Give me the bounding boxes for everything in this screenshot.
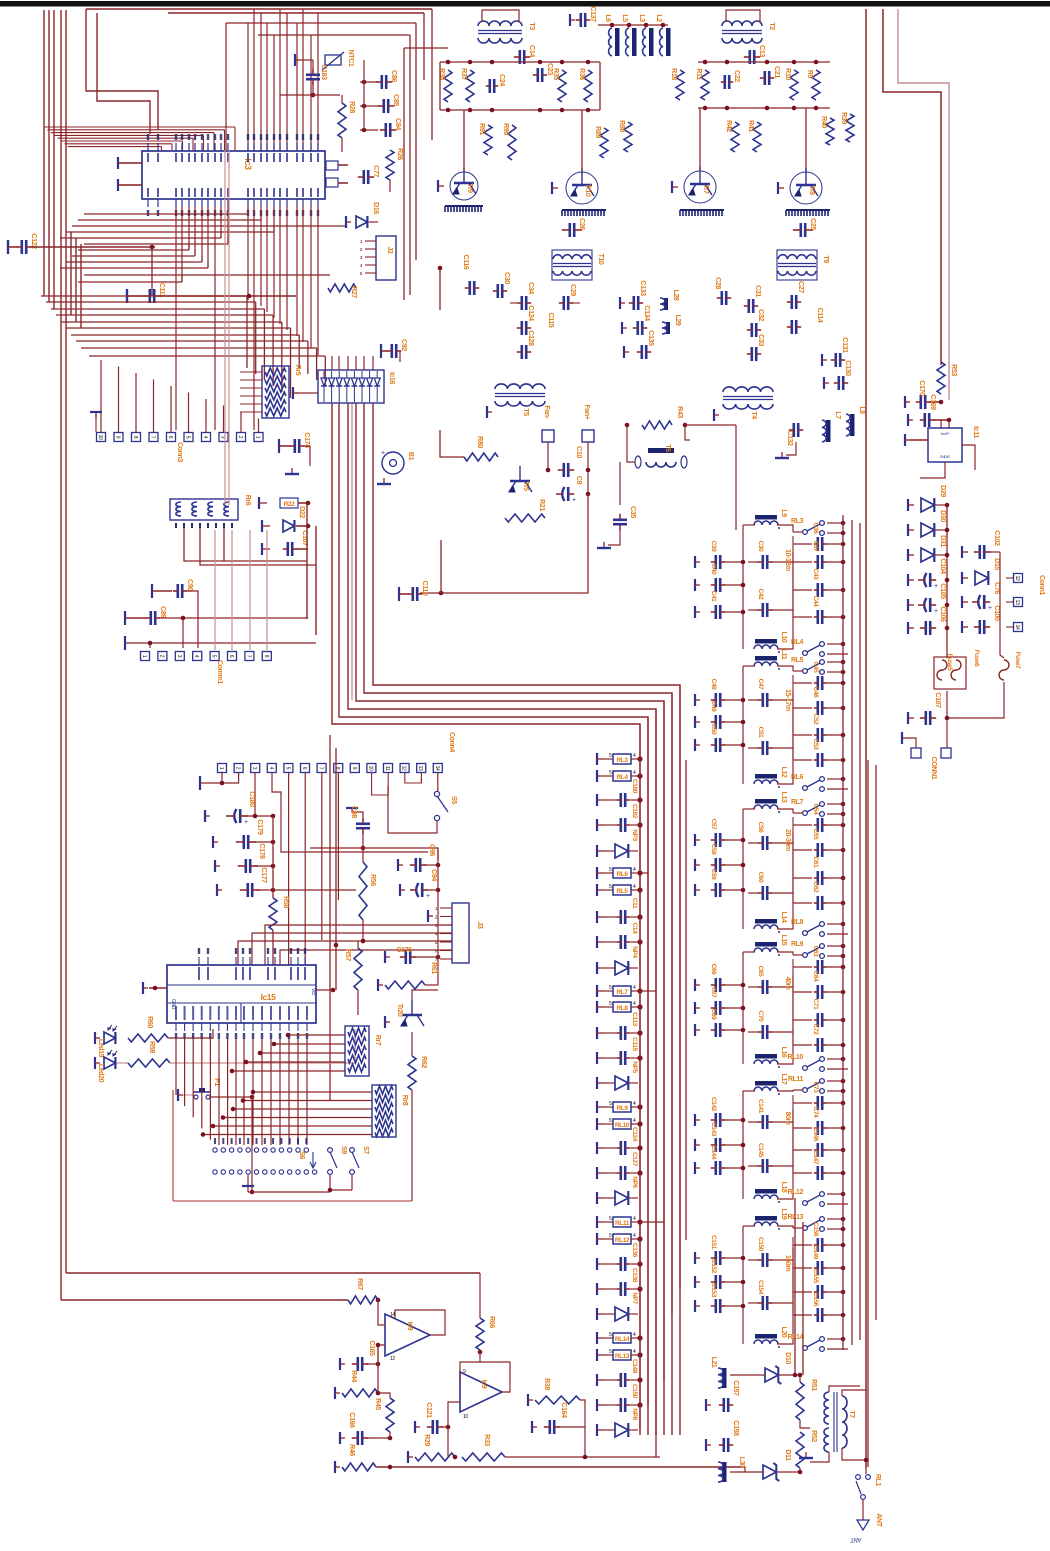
svg-text:NP5: NP5 xyxy=(631,1061,638,1073)
svg-text:RL9: RL9 xyxy=(791,941,804,948)
svg-text:C132: C132 xyxy=(786,430,793,446)
svg-text:D30: D30 xyxy=(939,510,946,522)
svg-text:15-17m: 15-17m xyxy=(784,689,791,711)
svg-text:C50: C50 xyxy=(710,724,717,736)
svg-text:Rr7: Rr7 xyxy=(374,1035,381,1046)
svg-text:C30: C30 xyxy=(503,272,510,284)
svg-text:S6: S6 xyxy=(298,1151,305,1159)
svg-text:L6: L6 xyxy=(604,14,611,22)
svg-text:ANT: ANT xyxy=(850,1536,862,1542)
svg-text:C96: C96 xyxy=(428,844,435,856)
svg-text:C124: C124 xyxy=(631,1127,638,1142)
svg-text:R33: R33 xyxy=(483,1434,490,1446)
svg-text:R62: R62 xyxy=(420,1056,427,1068)
svg-text:R10: R10 xyxy=(784,68,791,80)
svg-text:+: + xyxy=(572,497,576,504)
svg-text:RL14: RL14 xyxy=(615,1336,630,1343)
svg-text:+: + xyxy=(988,605,992,612)
svg-text:C170: C170 xyxy=(918,380,925,396)
svg-text:R39: R39 xyxy=(840,112,847,124)
svg-text:R26: R26 xyxy=(396,148,403,160)
svg-text:C45: C45 xyxy=(812,662,819,674)
svg-text:D31: D31 xyxy=(939,535,946,547)
svg-text:C29: C29 xyxy=(569,284,576,296)
svg-text:R58: R58 xyxy=(282,896,289,908)
svg-text:C158: C158 xyxy=(812,1222,819,1237)
svg-text:RL3: RL3 xyxy=(791,518,804,525)
svg-text:C34: C34 xyxy=(527,282,534,294)
svg-text:R40: R40 xyxy=(820,116,827,128)
svg-text:C11: C11 xyxy=(631,898,638,909)
svg-text:T4: T4 xyxy=(750,411,757,419)
svg-text:C14: C14 xyxy=(528,45,535,57)
svg-text:C85: C85 xyxy=(392,94,399,106)
svg-text:Fuse7: Fuse7 xyxy=(1014,652,1021,670)
svg-text:C104: C104 xyxy=(939,558,946,574)
svg-text:RL7: RL7 xyxy=(616,989,628,996)
svg-text:ANT: ANT xyxy=(875,1513,882,1527)
svg-text:C151: C151 xyxy=(710,1235,717,1250)
svg-text:B1: B1 xyxy=(407,452,414,461)
svg-text:C156: C156 xyxy=(812,1292,819,1307)
svg-text:+: + xyxy=(381,450,385,457)
svg-text:Rr5: Rr5 xyxy=(294,365,301,376)
svg-text:C145: C145 xyxy=(757,1143,764,1158)
svg-text:R38: R38 xyxy=(438,68,445,80)
svg-text:L10: L10 xyxy=(780,632,787,643)
svg-text:C134: C134 xyxy=(643,305,650,321)
svg-text:12: 12 xyxy=(390,1356,395,1362)
svg-text:C41: C41 xyxy=(710,591,717,603)
svg-text:Ic9: Ic9 xyxy=(480,1380,487,1389)
svg-text:10-12m: 10-12m xyxy=(784,549,791,571)
svg-text:Tr20: Tr20 xyxy=(396,1004,403,1017)
svg-text:L8: L8 xyxy=(858,406,865,414)
svg-text:RL3: RL3 xyxy=(616,757,628,764)
svg-text:R59: R59 xyxy=(148,1041,155,1053)
svg-text:14: 14 xyxy=(434,766,440,771)
svg-text:RL4: RL4 xyxy=(616,774,628,781)
svg-text:J2: J2 xyxy=(386,247,393,254)
svg-text:C182: C182 xyxy=(631,804,638,819)
svg-text:R43: R43 xyxy=(676,406,683,418)
svg-text:RL11: RL11 xyxy=(788,1076,804,1083)
svg-text:C57: C57 xyxy=(710,819,717,831)
svg-text:R36: R36 xyxy=(578,68,585,80)
svg-text:D22: D22 xyxy=(298,506,305,518)
svg-text:12: 12 xyxy=(1014,576,1020,581)
svg-text:C164: C164 xyxy=(560,1402,567,1418)
svg-text:D11: D11 xyxy=(784,1449,791,1461)
svg-text:C70: C70 xyxy=(757,1011,764,1023)
svg-text:C138: C138 xyxy=(631,1268,638,1283)
svg-text:L5: L5 xyxy=(621,14,628,22)
svg-text:C179: C179 xyxy=(256,819,263,835)
svg-text:CONN1: CONN1 xyxy=(930,757,937,780)
svg-text:RL5: RL5 xyxy=(616,888,628,895)
svg-text:C102: C102 xyxy=(993,530,1000,546)
svg-text:Conn4: Conn4 xyxy=(448,732,455,752)
svg-text:10: 10 xyxy=(97,435,103,440)
svg-text:L18: L18 xyxy=(780,1182,787,1193)
svg-text:L3: L3 xyxy=(638,14,645,22)
svg-text:C74: C74 xyxy=(812,1107,819,1119)
svg-text:+: + xyxy=(244,819,248,826)
svg-text:+: + xyxy=(934,583,938,590)
svg-text:R61: R61 xyxy=(430,962,437,974)
svg-text:C128: C128 xyxy=(527,330,534,346)
svg-text:R91: R91 xyxy=(478,123,485,135)
svg-text:C24: C24 xyxy=(498,74,505,86)
svg-text:RL8: RL8 xyxy=(791,919,804,926)
svg-text:C26: C26 xyxy=(578,218,585,230)
svg-text:C166: C166 xyxy=(348,1412,355,1428)
svg-text:C180: C180 xyxy=(248,791,255,807)
svg-text:C136: C136 xyxy=(631,1243,638,1258)
svg-text:T10: T10 xyxy=(597,254,604,265)
svg-text:Conn3: Conn3 xyxy=(176,442,183,462)
svg-text:R28: R28 xyxy=(348,101,355,113)
svg-text:C135: C135 xyxy=(647,330,654,346)
svg-text:R21: R21 xyxy=(538,499,545,511)
svg-text:C116: C116 xyxy=(462,255,469,270)
svg-text:Tr8: Tr8 xyxy=(808,185,815,195)
svg-text:RL6: RL6 xyxy=(616,871,628,878)
svg-text:C69: C69 xyxy=(710,1009,717,1021)
svg-text:10: 10 xyxy=(463,1414,468,1420)
svg-text:R51: R51 xyxy=(810,1379,817,1391)
svg-text:Fan+: Fan+ xyxy=(583,405,590,420)
svg-text:C157: C157 xyxy=(732,1380,739,1396)
svg-text:C92: C92 xyxy=(400,339,407,351)
svg-text:L12: L12 xyxy=(780,767,787,778)
svg-text:C121: C121 xyxy=(425,1402,432,1418)
svg-text:C137: C137 xyxy=(589,6,596,22)
svg-text:C98: C98 xyxy=(350,806,357,818)
svg-text:C49: C49 xyxy=(710,701,717,713)
svg-text:Ic15: Ic15 xyxy=(261,992,277,1002)
svg-text:C130: C130 xyxy=(844,360,851,376)
svg-text:R90: R90 xyxy=(502,123,509,135)
svg-text:C64: C64 xyxy=(812,971,819,983)
svg-text:R56: R56 xyxy=(369,874,376,886)
svg-text:C67: C67 xyxy=(710,987,717,999)
svg-text:D15: D15 xyxy=(993,558,1000,570)
svg-text:160m: 160m xyxy=(784,1255,791,1271)
svg-text:RL6: RL6 xyxy=(791,774,804,781)
svg-text:Led19: Led19 xyxy=(97,1039,104,1058)
svg-text:C150: C150 xyxy=(631,1384,638,1399)
svg-text:Fuse6: Fuse6 xyxy=(973,650,980,668)
svg-text:R52: R52 xyxy=(810,1430,817,1442)
svg-text:C37: C37 xyxy=(812,541,819,553)
svg-text:C107: C107 xyxy=(934,692,941,708)
svg-text:NP8: NP8 xyxy=(631,1408,638,1420)
svg-text:L9: L9 xyxy=(780,509,787,517)
svg-text:R57: R57 xyxy=(344,949,351,961)
svg-text:R27: R27 xyxy=(350,286,357,298)
svg-text:C89: C89 xyxy=(159,606,166,618)
svg-text:C47: C47 xyxy=(757,679,764,691)
svg-text:L7: L7 xyxy=(834,411,841,419)
svg-text:C23: C23 xyxy=(546,63,553,75)
svg-text:C55: C55 xyxy=(812,829,819,841)
svg-text:S5: S5 xyxy=(450,796,457,804)
svg-text:T7: T7 xyxy=(848,1410,855,1418)
svg-text:C155: C155 xyxy=(812,1269,819,1284)
svg-text:L11: L11 xyxy=(780,649,787,660)
svg-text:L29: L29 xyxy=(674,315,681,326)
svg-text:R67: R67 xyxy=(356,1278,363,1290)
svg-text:13: 13 xyxy=(1014,600,1020,605)
svg-text:Tr5: Tr5 xyxy=(522,481,529,491)
svg-text:C142: C142 xyxy=(710,1097,717,1112)
svg-text:C52: C52 xyxy=(812,714,819,726)
svg-text:R9: R9 xyxy=(806,70,813,79)
svg-text:C43: C43 xyxy=(812,569,819,581)
svg-text:C66: C66 xyxy=(710,964,717,976)
svg-text:Comm1: Comm1 xyxy=(216,660,223,684)
svg-text:C115: C115 xyxy=(547,313,554,328)
svg-text:20-30m: 20-30m xyxy=(784,829,791,851)
svg-text:L14: L14 xyxy=(780,912,787,923)
svg-text:C158: C158 xyxy=(732,1420,739,1436)
svg-text:R35: R35 xyxy=(552,68,559,80)
svg-text:D16: D16 xyxy=(372,202,379,214)
svg-text:L16: L16 xyxy=(780,1047,787,1058)
svg-text:C115: C115 xyxy=(631,1037,638,1051)
svg-text:C48: C48 xyxy=(710,679,717,691)
svg-text:RL4: RL4 xyxy=(791,639,804,646)
svg-text:RL9: RL9 xyxy=(616,1105,628,1112)
svg-text:T3: T3 xyxy=(528,22,535,30)
svg-text:L15: L15 xyxy=(780,935,787,946)
svg-text:C65: C65 xyxy=(757,966,764,978)
svg-text:R41: R41 xyxy=(747,120,754,132)
svg-text:RL10: RL10 xyxy=(787,1054,803,1061)
svg-text:RL11: RL11 xyxy=(615,1220,630,1227)
svg-text:C152: C152 xyxy=(710,1259,717,1274)
svg-text:C33: C33 xyxy=(757,334,764,346)
svg-text:C176: C176 xyxy=(396,947,412,954)
svg-text:RL13: RL13 xyxy=(615,1353,630,1360)
svg-text:C124: C124 xyxy=(527,305,534,321)
svg-text:RL12: RL12 xyxy=(787,1189,803,1196)
svg-text:11: 11 xyxy=(384,766,390,771)
svg-text:R22: R22 xyxy=(284,501,296,508)
svg-text:R66: R66 xyxy=(488,1316,495,1328)
svg-text:Led20: Led20 xyxy=(97,1064,104,1083)
svg-text:C94: C94 xyxy=(430,869,437,881)
svg-text:S9: S9 xyxy=(340,1146,347,1154)
svg-text:C163: C163 xyxy=(320,64,327,80)
svg-text:NTC1: NTC1 xyxy=(347,50,354,67)
svg-text:+: + xyxy=(934,608,938,615)
svg-text:C59: C59 xyxy=(710,869,717,881)
svg-text:R46: R46 xyxy=(348,1444,355,1456)
svg-text:C131: C131 xyxy=(841,337,848,353)
svg-text:C10: C10 xyxy=(575,446,582,458)
svg-text:C100: C100 xyxy=(993,605,1000,621)
svg-text:R44: R44 xyxy=(350,1370,357,1382)
svg-text:C154: C154 xyxy=(757,1280,764,1295)
svg-text:Ic16: Ic16 xyxy=(388,372,395,385)
svg-text:14: 14 xyxy=(1014,625,1020,630)
svg-text:L19: L19 xyxy=(780,1209,787,1220)
svg-text:T6: T6 xyxy=(664,444,671,452)
svg-text:C76: C76 xyxy=(993,582,1000,594)
svg-text:RL8: RL8 xyxy=(616,1005,628,1012)
svg-text:C25: C25 xyxy=(809,218,816,230)
svg-text:80m: 80m xyxy=(784,1112,791,1125)
svg-text:R53: R53 xyxy=(950,364,957,376)
svg-text:+: + xyxy=(426,893,430,900)
svg-text:C35: C35 xyxy=(629,506,636,518)
svg-text:GND IP-: GND IP- xyxy=(940,455,952,459)
svg-text:Rr8: Rr8 xyxy=(401,1095,408,1106)
svg-text:C53: C53 xyxy=(812,739,819,751)
svg-text:C180: C180 xyxy=(631,779,638,794)
svg-text:C28: C28 xyxy=(714,277,721,289)
svg-text:C42: C42 xyxy=(757,589,764,601)
svg-text:Vcc: Vcc xyxy=(310,988,316,996)
svg-text:L13: L13 xyxy=(780,792,787,803)
svg-text:C148: C148 xyxy=(631,1359,638,1374)
svg-text:J3: J3 xyxy=(476,922,483,929)
svg-text:C141: C141 xyxy=(757,1099,764,1114)
svg-text:L17: L17 xyxy=(780,1074,787,1085)
svg-text:R45: R45 xyxy=(374,1398,381,1410)
svg-text:10: 10 xyxy=(367,766,373,771)
svg-text:C30: C30 xyxy=(757,541,764,553)
svg-text:C114: C114 xyxy=(816,308,823,323)
svg-text:C56: C56 xyxy=(757,822,764,834)
svg-text:Ic9: Ic9 xyxy=(406,1322,413,1331)
svg-text:C165: C165 xyxy=(368,1340,375,1356)
svg-text:C71: C71 xyxy=(812,999,819,1011)
svg-text:L2: L2 xyxy=(655,14,662,22)
svg-text:L20: L20 xyxy=(780,1327,787,1338)
svg-text:T9: T9 xyxy=(822,255,829,263)
svg-text:R88: R88 xyxy=(618,120,625,132)
svg-text:C73: C73 xyxy=(812,1082,819,1094)
svg-text:R60: R60 xyxy=(146,1016,153,1028)
svg-text:NP4: NP4 xyxy=(631,946,638,958)
svg-text:RL12: RL12 xyxy=(615,1237,630,1244)
svg-text:C110: C110 xyxy=(421,581,428,596)
svg-text:C133: C133 xyxy=(639,280,646,296)
svg-text:NP6: NP6 xyxy=(631,1176,638,1188)
svg-text:RL5: RL5 xyxy=(791,657,804,664)
svg-text:C77: C77 xyxy=(372,165,379,177)
svg-text:D10: D10 xyxy=(784,1352,791,1364)
svg-text:C27: C27 xyxy=(797,281,804,293)
svg-text:C72: C72 xyxy=(812,1024,819,1036)
svg-text:C150: C150 xyxy=(757,1237,764,1252)
svg-text:NP3: NP3 xyxy=(631,829,638,841)
svg-text:C169: C169 xyxy=(929,394,936,410)
svg-text:C90: C90 xyxy=(186,579,193,591)
svg-text:C14: C14 xyxy=(631,923,638,935)
svg-text:R80: R80 xyxy=(476,436,483,448)
svg-text:Tr10: Tr10 xyxy=(584,184,591,197)
svg-text:RL7: RL7 xyxy=(791,799,804,806)
svg-text:R89: R89 xyxy=(594,126,601,138)
svg-text:C13: C13 xyxy=(758,45,765,57)
svg-text:NP7: NP7 xyxy=(631,1292,638,1304)
svg-text:R29: R29 xyxy=(423,1434,430,1446)
svg-text:C21: C21 xyxy=(773,66,780,78)
svg-text:C58: C58 xyxy=(710,844,717,856)
svg-text:L28: L28 xyxy=(672,290,679,301)
svg-text:R38: R38 xyxy=(543,1378,550,1390)
svg-text:D29: D29 xyxy=(939,485,946,497)
svg-text:C22: C22 xyxy=(733,70,740,82)
svg-text:C63: C63 xyxy=(812,946,819,958)
svg-text:C106: C106 xyxy=(939,606,946,622)
svg-text:C62: C62 xyxy=(812,882,819,894)
svg-text:C149: C149 xyxy=(812,1245,819,1260)
svg-text:C105: C105 xyxy=(939,583,946,599)
svg-text:C86: C86 xyxy=(390,70,397,82)
svg-text:C61: C61 xyxy=(812,857,819,869)
svg-text:C32: C32 xyxy=(757,309,764,321)
svg-text:C178: C178 xyxy=(258,843,265,859)
svg-text:C40: C40 xyxy=(710,564,717,576)
svg-text:C46: C46 xyxy=(812,687,819,699)
svg-text:R37: R37 xyxy=(460,68,467,80)
svg-text:40m: 40m xyxy=(784,977,791,990)
svg-text:13: 13 xyxy=(417,766,423,771)
svg-text:T2: T2 xyxy=(768,22,775,30)
svg-text:C51: C51 xyxy=(757,727,764,739)
svg-text:S7: S7 xyxy=(362,1146,369,1154)
svg-text:C177: C177 xyxy=(260,867,267,883)
svg-text:C144: C144 xyxy=(710,1145,717,1160)
svg-text:C146: C146 xyxy=(812,1127,819,1142)
svg-text:Rr6: Rr6 xyxy=(244,495,251,506)
svg-text:C54: C54 xyxy=(812,804,819,816)
svg-text:Tr9: Tr9 xyxy=(466,183,473,193)
svg-text:C143: C143 xyxy=(710,1122,717,1137)
svg-text:RL1: RL1 xyxy=(874,1474,881,1487)
svg-text:L21: L21 xyxy=(710,1357,717,1368)
svg-text:12: 12 xyxy=(401,766,407,771)
svg-text:Tr7: Tr7 xyxy=(702,184,709,194)
svg-text:C9: C9 xyxy=(575,476,582,485)
svg-text:C31: C31 xyxy=(754,285,761,297)
svg-text:C147: C147 xyxy=(812,1150,819,1165)
svg-text:R42: R42 xyxy=(725,120,732,132)
svg-text:T5: T5 xyxy=(522,408,529,416)
svg-text:R11: R11 xyxy=(695,68,702,80)
svg-text:RL10: RL10 xyxy=(615,1122,630,1129)
svg-text:C113: C113 xyxy=(631,1012,638,1026)
svg-text:C60: C60 xyxy=(757,872,764,884)
svg-text:C153: C153 xyxy=(710,1283,717,1298)
svg-text:C39: C39 xyxy=(710,541,717,553)
svg-text:Vcc IP+: Vcc IP+ xyxy=(940,432,950,436)
svg-text:Ic11: Ic11 xyxy=(972,426,979,438)
svg-text:R18: R18 xyxy=(670,68,677,80)
svg-text:L30: L30 xyxy=(738,1457,745,1468)
svg-text:C127: C127 xyxy=(631,1152,638,1167)
svg-text:C36: C36 xyxy=(812,523,819,535)
svg-text:Conn1: Conn1 xyxy=(1038,575,1045,595)
svg-text:C84: C84 xyxy=(394,118,401,130)
svg-text:C44: C44 xyxy=(812,596,819,608)
svg-text:Fan-: Fan- xyxy=(543,405,550,419)
